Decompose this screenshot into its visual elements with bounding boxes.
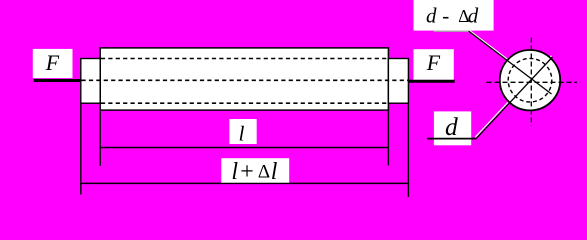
dimension line l + delta l bbox=[81, 182, 409, 184]
extension line x=388.4 (right end of l) bbox=[387, 110, 389, 165]
rod body (original rod, length l, diameter d) bbox=[100, 48, 388, 110]
extension line x=80.8 (left end of l+delta l) bbox=[80, 103, 82, 194]
extension line x=408.4 (right end of l+delta l) bbox=[407, 103, 409, 197]
svg-text:d: d bbox=[445, 112, 458, 141]
left protruding end of stretched rod bbox=[81, 59, 100, 104]
svg-text:d: d bbox=[426, 4, 437, 28]
crosshair vertical dashed centreline bbox=[530, 38, 532, 127]
svg-text:Δ: Δ bbox=[258, 162, 270, 183]
cross-section outer circle (diameter d) bbox=[500, 50, 560, 110]
label box l + delta l bbox=[221, 158, 289, 183]
label box l bbox=[229, 119, 256, 144]
dashed centre axis line of rod bbox=[82, 79, 409, 81]
dimension line l bbox=[100, 147, 388, 149]
underline bar of d callout bbox=[427, 138, 476, 140]
grey under-bar of d - delta d callout bbox=[434, 30, 469, 32]
label box F left bbox=[33, 49, 73, 78]
extension line x=100.2 (left end of l) bbox=[99, 110, 101, 166]
leader line d to circle bbox=[476, 57, 552, 139]
svg-text:l: l bbox=[271, 159, 278, 185]
label box F right bbox=[414, 49, 454, 79]
svg-text:l: l bbox=[231, 159, 238, 185]
svg-text:+: + bbox=[240, 159, 254, 185]
leader line d - delta d to circle bbox=[469, 31, 552, 94]
dashed bottom outline of stretched rod bbox=[101, 102, 389, 104]
dashed top outline of stretched rod (d - delta d) bbox=[101, 58, 389, 60]
white shadow of leader d bbox=[475, 56, 551, 138]
right protruding end of stretched rod bbox=[388, 59, 408, 104]
svg-text:F: F bbox=[426, 51, 441, 75]
force line left (thick) bbox=[34, 79, 82, 82]
white shadow of leader d - delta d bbox=[469, 30, 552, 93]
svg-text:-: - bbox=[442, 4, 449, 28]
svg-text:l: l bbox=[239, 122, 245, 146]
svg-text:F: F bbox=[45, 51, 60, 75]
label box d - delta d bbox=[414, 0, 494, 31]
crosshair horizontal dashed centreline bbox=[487, 81, 578, 83]
force line right (thick) bbox=[408, 80, 455, 83]
cross-section inner dashed circle (diameter d - delta d) bbox=[508, 58, 552, 102]
svg-text:d: d bbox=[468, 4, 479, 28]
label box d bbox=[434, 111, 471, 145]
